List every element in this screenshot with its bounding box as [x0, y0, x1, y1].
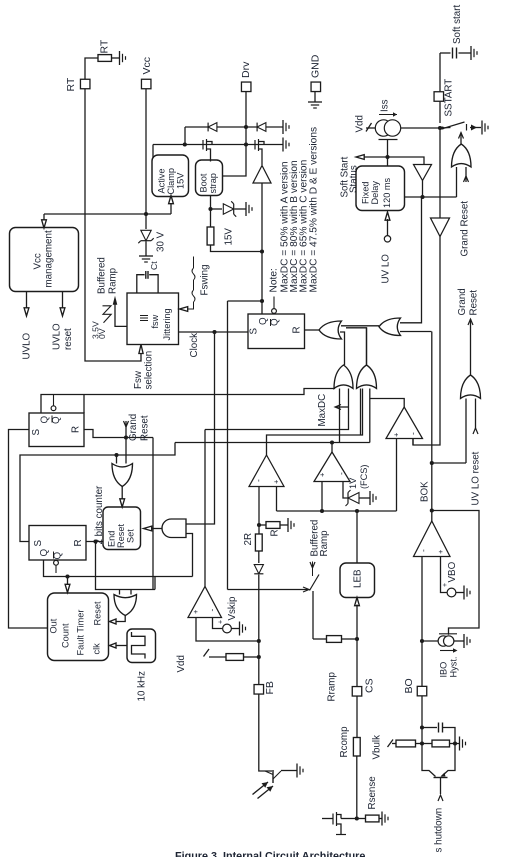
wire Q to switch	[227, 301, 229, 590]
wire Q branch	[228, 300, 263, 302]
resistor R8 Rramp	[326, 636, 341, 702]
svg-text:Clamp: Clamp	[166, 168, 176, 195]
node status	[385, 155, 389, 159]
ground	[288, 518, 294, 532]
svg-text:Fswing: Fswing	[199, 264, 210, 295]
svg-text:LEB: LEB	[352, 569, 363, 588]
svg-text:Rsense: Rsense	[367, 776, 378, 810]
wire FF1 S	[9, 430, 48, 629]
svg-text:R: R	[291, 326, 302, 333]
wire Vdd to Iss	[354, 115, 379, 132]
Fault Timer U14	[48, 593, 109, 661]
pin SSTART	[434, 79, 454, 117]
transistor M3	[322, 812, 346, 835]
or-gate G7	[112, 464, 133, 487]
zener D3 30V	[138, 214, 166, 256]
resistor R7 Rcomp	[339, 726, 360, 758]
pin FB	[254, 681, 276, 694]
wire GR to counter gate	[125, 438, 127, 464]
node clock line	[212, 330, 216, 334]
svg-text:2R: 2R	[243, 533, 254, 546]
pin RT	[65, 77, 90, 91]
svg-text:Vbulk: Vbulk	[371, 735, 382, 760]
svg-text:UVLO: UVLO	[51, 323, 62, 350]
wire G3 input1	[456, 167, 458, 197]
svg-text:Buffered: Buffered	[96, 257, 107, 294]
node Drv diode row	[244, 125, 248, 129]
ground	[283, 120, 289, 134]
svg-text:Rcomp: Rcomp	[339, 726, 350, 758]
wire Iss to switch	[401, 127, 451, 130]
wire G out	[331, 443, 333, 453]
svg-text:Vdd: Vdd	[354, 115, 365, 132]
wire to 15V zener	[211, 208, 223, 210]
node BO div	[420, 741, 424, 745]
wire FF1 Q	[41, 389, 335, 414]
clock source 10kHz	[127, 629, 156, 702]
wire G2 input1	[400, 197, 422, 323]
wire arrow into Vcc management	[42, 214, 47, 228]
wire G9 in1	[119, 590, 121, 595]
wire FF2 Q line	[44, 560, 193, 577]
svg-text:Clock: Clock	[189, 333, 200, 358]
svg-text:+: +	[191, 609, 200, 614]
wire Fswing squiggle	[180, 257, 211, 312]
ground	[283, 138, 289, 152]
wire 197 rail	[405, 196, 457, 198]
wire to Fswing node	[211, 245, 263, 252]
svg-text:clk: clk	[91, 643, 101, 655]
wire vskip plus lead	[196, 618, 259, 642]
svg-text:fsw: fsw	[150, 314, 160, 328]
wire grand reset in	[124, 414, 151, 441]
or-gate G1	[319, 321, 342, 339]
Active Clamp U2	[152, 155, 189, 197]
wire FF2 Qbar stub	[54, 560, 59, 573]
svg-text:-: -	[336, 472, 346, 475]
wire mosfet rail	[153, 145, 283, 158]
svg-text:+: +	[217, 620, 224, 624]
label UVLO output	[21, 292, 32, 360]
resistor RT	[98, 39, 112, 61]
wire BOK to G4	[432, 462, 466, 464]
svg-text:Ct: Ct	[149, 261, 159, 270]
Vcc management U1	[10, 228, 79, 292]
wire G3 input2 Grand Reset	[459, 167, 470, 257]
wire resistor to ground	[112, 57, 120, 59]
diode D6	[254, 565, 263, 574]
wire Clock out	[179, 332, 249, 358]
wire clock to AND	[186, 332, 215, 524]
node bootstrap zener	[208, 207, 212, 211]
svg-text:Reset: Reset	[139, 415, 150, 441]
wire BOK hyst line	[432, 511, 479, 635]
wire G7 out	[120, 487, 125, 508]
ground	[246, 202, 252, 216]
svg-text:0V: 0V	[97, 328, 107, 339]
ground	[297, 764, 303, 778]
wire Rramp	[313, 638, 327, 640]
pin GND	[309, 54, 321, 91]
wire A2 out	[422, 181, 424, 198]
flip-flop U5	[248, 314, 305, 349]
svg-text:management: management	[43, 230, 54, 287]
wire 2R to diode	[258, 551, 260, 563]
pin Vcc	[141, 57, 153, 89]
Boot strap U3	[196, 160, 223, 196]
or-gate G2	[379, 318, 401, 336]
node counter S line	[114, 453, 118, 464]
svg-text:R: R	[269, 529, 280, 536]
wire G8 in2	[186, 534, 193, 577]
flip-flop U13	[29, 526, 86, 561]
wire mosfet to sense	[341, 818, 357, 820]
wire G minus	[343, 482, 348, 499]
svg-text:MaxDC = 47.5% with D & E versi: MaxDC = 47.5% with D & E versions	[308, 127, 319, 293]
wire FF1 R	[84, 430, 153, 438]
svg-text:Fault Timer: Fault Timer	[75, 610, 85, 656]
caption	[175, 851, 365, 862]
wire ramp line	[277, 510, 397, 512]
wire BO net	[421, 557, 423, 687]
svg-text:1V: 1V	[348, 477, 358, 489]
wire G9 out	[110, 616, 126, 625]
wire R6 to FB	[244, 656, 259, 658]
or-gate G9	[114, 595, 137, 616]
svg-text:SSTART: SSTART	[443, 79, 454, 117]
zener D5 1V FCS	[346, 465, 371, 507]
wire ramp sample line	[228, 587, 310, 592]
LEB U15	[340, 563, 375, 598]
svg-text:s hutdown: s hutdown	[433, 808, 444, 853]
wire G plus	[321, 482, 323, 512]
svg-text:10 kHz: 10 kHz	[136, 671, 147, 702]
svg-text:15V: 15V	[175, 172, 185, 189]
node grand reset	[124, 435, 128, 439]
pin CS	[352, 678, 375, 696]
svg-text:+: +	[271, 479, 280, 484]
wire FB to pin	[258, 641, 260, 684]
resistor R6	[226, 654, 244, 661]
ground	[120, 51, 126, 65]
svg-text:MaxDC: MaxDC	[317, 394, 328, 427]
capacitor C2	[422, 723, 455, 744]
current source Iss	[375, 99, 400, 157]
wire Iss to A3	[439, 128, 441, 218]
wire fault jog	[20, 443, 175, 542]
current source IBO	[438, 634, 458, 678]
switch buffered ramp	[309, 520, 330, 639]
buffer A3	[431, 218, 450, 237]
svg-text:+: +	[317, 472, 326, 477]
node count tap	[65, 574, 69, 578]
wire buffered ramp out	[113, 296, 127, 327]
wire bootstrap lower	[210, 196, 212, 228]
wire Vcc rail	[44, 213, 171, 215]
wire clk	[110, 643, 128, 648]
wire G1 input2	[340, 332, 345, 365]
wire status line	[356, 155, 424, 164]
node G output	[330, 440, 334, 444]
wire FF2 R	[86, 541, 103, 543]
pin BO	[403, 678, 427, 696]
node BOK g4	[430, 461, 434, 465]
svg-text:Vcc: Vcc	[141, 57, 153, 75]
node BO div right	[453, 741, 457, 745]
node clock Q branch	[260, 299, 264, 303]
wire G1 input1	[341, 325, 379, 327]
wire vskip out	[204, 430, 206, 587]
switch soft start	[441, 122, 481, 131]
node SSTART	[438, 126, 442, 130]
svg-text:-: -	[418, 549, 428, 552]
ground	[139, 256, 153, 262]
ground	[464, 586, 470, 600]
svg-text:120 ms: 120 ms	[382, 177, 392, 208]
svg-text:Figure 3. Internal Circuit Arc: Figure 3. Internal Circuit Architecture	[175, 851, 365, 858]
wire F plus	[276, 487, 278, 512]
resistor R5 2R	[243, 525, 262, 551]
ground	[240, 622, 246, 636]
wire Rcomp to sense	[356, 756, 358, 819]
svg-text:Grand: Grand	[128, 414, 139, 441]
node BO cap	[420, 725, 424, 729]
or-gate G3	[452, 144, 472, 167]
wire diode row	[185, 127, 283, 145]
svg-text:UV LO: UV LO	[380, 254, 391, 284]
and-gate G8	[162, 519, 186, 538]
wire G4 input1	[465, 399, 467, 464]
svg-text:VBO: VBO	[447, 561, 458, 582]
wire Fminus to R	[259, 524, 266, 526]
or-gate G5	[334, 365, 353, 389]
wire Vcc net	[145, 89, 147, 214]
svg-text:S: S	[248, 328, 259, 335]
node driver input	[260, 249, 264, 253]
svg-text:Count: Count	[60, 623, 70, 648]
svg-text:Vskip: Vskip	[227, 596, 238, 621]
wire maxdc arrow	[317, 394, 349, 427]
svg-text:Boot: Boot	[198, 173, 208, 192]
wire F minus	[258, 487, 260, 526]
svg-text:+: +	[391, 432, 400, 437]
svg-text:Rramp: Rramp	[326, 672, 337, 702]
wire LEB top	[356, 511, 358, 563]
svg-text:R: R	[73, 539, 84, 546]
wire R to ground	[280, 524, 288, 526]
wire vskip ref	[213, 618, 223, 629]
svg-text:Note:: Note:	[268, 268, 279, 292]
wire RT net	[85, 89, 141, 361]
comparator U7	[386, 407, 423, 439]
svg-text:Ramp: Ramp	[107, 267, 118, 294]
wire G6 out	[366, 328, 368, 365]
svg-text:Q: Q	[39, 416, 50, 424]
wire UVLO input	[380, 212, 391, 284]
svg-text:Out: Out	[48, 618, 58, 633]
label Soft start	[452, 5, 463, 44]
buffer driver A1	[253, 166, 271, 184]
svg-text:Q: Q	[39, 549, 50, 557]
wire E plus	[396, 439, 398, 512]
svg-text:Vdd: Vdd	[176, 655, 187, 672]
svg-text:Drv: Drv	[240, 61, 252, 78]
svg-text:Q: Q	[258, 317, 269, 325]
svg-text:Status: Status	[348, 165, 359, 193]
wire G8 out	[144, 526, 163, 531]
wire CS to Rcomp	[356, 696, 358, 738]
svg-text:Reset: Reset	[92, 601, 102, 625]
wire FF1 Qbar stub	[51, 395, 56, 411]
wire G5 mid leg	[339, 389, 341, 443]
ground	[482, 121, 488, 135]
wire RT pin to resistor	[85, 58, 98, 80]
node FB pullup	[257, 655, 261, 659]
wire G3 output arrow	[459, 133, 464, 145]
wire G4 out Grand Reset	[457, 288, 480, 375]
svg-text:RT: RT	[98, 39, 110, 53]
wire Rramp to CS	[342, 638, 358, 640]
wire shutdown input	[433, 795, 444, 853]
wire F out	[267, 389, 363, 456]
diode D1	[208, 123, 217, 132]
svg-text:(FCS): (FCS)	[359, 465, 369, 490]
wire CS down	[356, 639, 358, 686]
ground	[471, 46, 477, 60]
svg-text:Fixed: Fixed	[360, 182, 370, 204]
buffer A2	[414, 165, 432, 181]
label fsw	[140, 314, 160, 328]
node BOK iso	[430, 508, 434, 512]
svg-text:S: S	[31, 429, 42, 436]
wire G1 input3	[346, 328, 367, 365]
wire vskip line	[205, 389, 349, 430]
comparator U8	[249, 455, 284, 487]
ground	[460, 737, 466, 751]
svg-text:UV LO reset: UV LO reset	[470, 451, 481, 505]
wire E out	[370, 399, 404, 408]
svg-text:+: +	[442, 583, 449, 587]
wire IBO lead	[422, 640, 438, 642]
or-gate G6	[357, 365, 377, 389]
flip-flop U11	[29, 413, 84, 447]
wire FF1 corner stub	[83, 395, 85, 414]
svg-text:Iss: Iss	[379, 99, 390, 112]
wire fault line	[175, 442, 370, 444]
wire count arrow	[65, 577, 70, 593]
svg-text:Reset: Reset	[468, 290, 479, 316]
End Reset Set U12	[103, 507, 141, 550]
node Vcc rail	[144, 212, 148, 216]
resistor R4	[266, 522, 280, 537]
source Vskip	[217, 620, 239, 633]
wire div to ground	[455, 743, 460, 745]
node F minus	[257, 523, 261, 527]
wire FF2 R to gate	[96, 542, 156, 590]
wire Drv net	[223, 92, 247, 177]
or-gate G4	[461, 375, 481, 399]
svg-text:Grand: Grand	[457, 288, 468, 315]
svg-text:Vcc: Vcc	[32, 253, 43, 269]
ground GND pin symbol	[308, 92, 322, 109]
node Rramp	[355, 637, 359, 641]
Fixed Delay U6	[356, 157, 405, 211]
wire G6 right leg	[369, 389, 371, 443]
label Jittering	[162, 308, 172, 340]
wire VBO lead	[441, 557, 448, 593]
svg-text:Fsw: Fsw	[133, 370, 144, 389]
svg-text:Hyst.: Hyst.	[448, 657, 458, 678]
wire BOK out	[431, 332, 433, 522]
wire Vbulk tick	[371, 735, 396, 760]
svg-text:End: End	[106, 531, 116, 547]
ground	[464, 634, 470, 648]
svg-text:-: -	[253, 479, 263, 482]
svg-text:S: S	[33, 540, 44, 547]
svg-text:-: -	[206, 609, 216, 612]
wire G4 input2 UVLO reset	[470, 399, 481, 506]
node y197	[420, 195, 424, 199]
svg-text:Reset: Reset	[116, 524, 126, 548]
svg-text:reset: reset	[63, 328, 74, 350]
transistor M2	[255, 139, 264, 165]
wire sense to Rsense	[357, 818, 366, 820]
wire BO below pin	[421, 696, 423, 744]
wire gate jog up	[154, 577, 156, 590]
svg-text:UVLO: UVLO	[21, 332, 32, 359]
diode D2	[257, 123, 266, 132]
comparator U9	[314, 452, 350, 482]
capacitor soft start	[440, 48, 471, 59]
node G plus	[320, 509, 324, 513]
svg-text:BO: BO	[403, 678, 415, 693]
svg-text:+: +	[436, 549, 445, 554]
wire E minus	[412, 439, 414, 446]
wire GR right leg	[152, 438, 154, 591]
waveform sawtooth	[91, 306, 112, 339]
label UVLO reset output	[51, 292, 74, 351]
wire SSTART net	[439, 53, 441, 123]
svg-text:CS: CS	[363, 678, 375, 693]
wire G2 input2	[400, 331, 432, 333]
wire G9 in2	[130, 590, 132, 595]
svg-text:R: R	[70, 426, 81, 433]
source VBO	[442, 561, 464, 596]
wire G6 left leg	[360, 389, 362, 436]
capacitor Ct	[137, 261, 159, 293]
node sense	[355, 816, 359, 820]
svg-text:Soft start: Soft start	[452, 5, 463, 44]
label Soft Start Status	[339, 156, 359, 197]
wire R input	[305, 329, 320, 331]
label 2 bits counter	[94, 485, 105, 545]
ground	[370, 491, 376, 505]
resistor R11 Rsense	[366, 776, 380, 822]
svg-text:strap: strap	[208, 173, 218, 193]
svg-text:Grand Reset: Grand Reset	[459, 201, 470, 257]
svg-text:IBO: IBO	[438, 662, 448, 678]
label Buffered Ramp	[96, 257, 118, 294]
svg-text:FB: FB	[264, 681, 276, 694]
svg-text:Jittering: Jittering	[162, 308, 172, 340]
optocoupler Q2	[253, 770, 298, 799]
Jittering fsw U4	[127, 293, 179, 345]
wire arrow into Active Clamp	[169, 196, 174, 215]
ground	[379, 812, 388, 826]
svg-text:selection: selection	[143, 351, 154, 390]
wire Qbar stub	[272, 297, 277, 314]
svg-text:RT: RT	[65, 77, 77, 91]
